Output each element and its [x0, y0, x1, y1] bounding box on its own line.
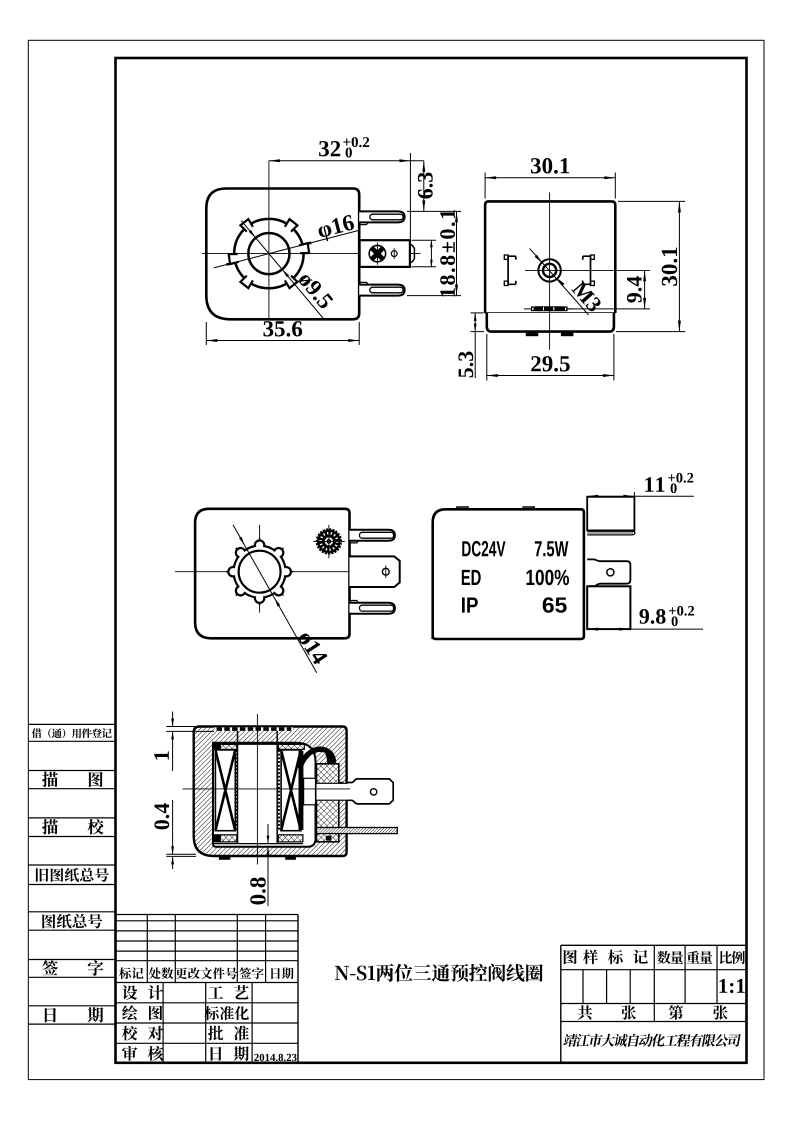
- header 数量: [657, 951, 683, 964]
- header 更改文件号: [176, 967, 238, 979]
- box bump right: [523, 507, 534, 509]
- castellation tabs: [229, 219, 309, 288]
- terminal blade section: [317, 779, 394, 804]
- bottom tab left v2: [526, 333, 539, 337]
- label 借(通)用件登记: [32, 728, 112, 738]
- title right block grid: [561, 945, 747, 1063]
- label text DC24V: [462, 541, 505, 557]
- centerline h view1: [202, 253, 421, 255]
- label 设计: [122, 985, 163, 1000]
- dim ø9.5 leader: [241, 221, 334, 320]
- coil body bottom view: [195, 509, 349, 639]
- bobbin top flange: [214, 744, 305, 750]
- label 日期: [45, 1007, 104, 1022]
- dim 30.1 right: [616, 201, 685, 331]
- signature table grid: [116, 983, 299, 1063]
- dim 11: [587, 473, 694, 500]
- terminal holder: [304, 778, 316, 805]
- label text 7.5W: [535, 541, 569, 556]
- winding right: [281, 750, 303, 831]
- row 共张第张: [578, 1005, 728, 1020]
- clip bracket left: [504, 255, 516, 286]
- dim 9.4: [566, 270, 650, 309]
- label text IP: [462, 598, 478, 613]
- gear ring φ14: [226, 538, 293, 605]
- bobbin bottom flange: [213, 835, 303, 843]
- centerline v view5: [256, 714, 258, 865]
- centerline h view3: [175, 571, 368, 573]
- label 描校: [42, 819, 104, 835]
- bottom feet: [219, 857, 296, 860]
- label 绘图: [122, 1005, 162, 1020]
- header 日期: [271, 968, 293, 980]
- top cover plate: [215, 727, 294, 731]
- header 标记: [119, 967, 144, 979]
- scale 1:1: [720, 979, 745, 993]
- circle φ9.5: [248, 233, 289, 274]
- centerline h view2: [525, 269, 650, 271]
- label 日期(sig): [211, 1046, 249, 1061]
- dim 9.8: [587, 606, 703, 631]
- dim 1: [154, 712, 214, 772]
- clip bracket right: [583, 255, 595, 286]
- label 批准: [208, 1026, 249, 1041]
- dim ø14 leader: [233, 525, 328, 673]
- phillips screw: [369, 243, 385, 265]
- center blade v3: [350, 556, 400, 587]
- company name: [563, 1034, 742, 1047]
- label 校对: [122, 1026, 163, 1041]
- bottom tab right v2: [561, 333, 574, 337]
- centerline v view3: [259, 525, 261, 613]
- label text 65: [543, 597, 567, 613]
- label 签字: [42, 960, 103, 976]
- wire-section chains: [236, 750, 279, 831]
- grommet bumps: [339, 783, 343, 801]
- header 重量: [686, 951, 712, 964]
- drawing title N-S1: [335, 964, 543, 982]
- dim block height: [412, 240, 437, 266]
- circle φ16: [234, 219, 303, 288]
- header 比例: [720, 951, 745, 964]
- black slot: [524, 306, 574, 311]
- connector block section: [317, 764, 339, 842]
- header 图样标记: [564, 950, 648, 965]
- bore tube walls: [213, 731, 303, 844]
- spade terminal lower v1: [359, 282, 404, 295]
- inner frame (thick): [116, 58, 747, 1063]
- label 工艺: [208, 985, 249, 999]
- label box: [433, 509, 584, 639]
- M3 hole: [538, 259, 560, 281]
- flat tab: [587, 497, 634, 531]
- left column grid: [28, 724, 115, 1024]
- label text ED: [462, 570, 481, 585]
- centerline v view1: [268, 161, 270, 319]
- centerline h view5: [183, 788, 351, 790]
- section body hatched: [194, 727, 347, 857]
- dim 29.5: [487, 334, 614, 381]
- dim M3 leader: [530, 248, 603, 315]
- spade terminal upper v3: [350, 530, 395, 543]
- lead wire: [300, 749, 335, 768]
- dim 6.3: [407, 161, 461, 212]
- dim 35.6: [206, 321, 359, 345]
- screw block v1: [360, 240, 415, 267]
- date 2014.8.23: [254, 1054, 296, 1061]
- dim 18.8±0.1: [407, 210, 461, 296]
- spade terminal lower v3: [350, 601, 395, 614]
- label 审核: [122, 1046, 163, 1061]
- yoke plate: [317, 828, 398, 834]
- dim 0.4: [154, 800, 196, 869]
- header 处数: [149, 967, 174, 979]
- dim 0.8: [250, 824, 269, 906]
- center blade side: [587, 586, 630, 629]
- dim φ16 leader: [214, 214, 360, 268]
- body rear view: [485, 201, 615, 331]
- spade terminal upper v1: [359, 211, 404, 224]
- dim 5.3: [458, 313, 484, 378]
- winding left: [215, 750, 235, 831]
- label 描图: [42, 772, 103, 788]
- centerline v view2: [549, 192, 551, 349]
- label 旧图纸总号: [36, 868, 109, 882]
- label 标准化: [205, 1006, 249, 1020]
- box bump left: [457, 507, 468, 509]
- small hole v1: [391, 248, 397, 259]
- header 签字: [239, 967, 263, 979]
- dim 32: [269, 137, 424, 240]
- gear inner circle: [239, 551, 281, 593]
- label text 100%: [527, 570, 570, 586]
- dim 30.1 top: [485, 158, 615, 199]
- label 图纸总号: [42, 914, 102, 929]
- spade terminal side: [587, 559, 630, 586]
- coil body top view: [206, 189, 359, 320]
- revision table grid: [116, 915, 299, 1063]
- thin plate: [587, 531, 635, 535]
- block foot notch: [326, 836, 332, 841]
- knurled screw: [313, 525, 345, 558]
